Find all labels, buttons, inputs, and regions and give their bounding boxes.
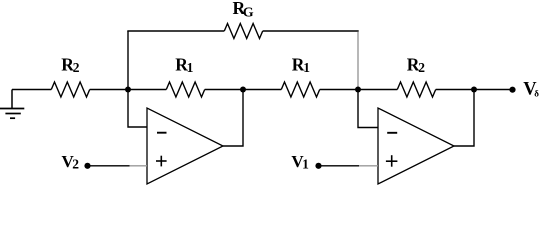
svg-text:2: 2	[72, 157, 79, 172]
svg-text:2: 2	[418, 60, 425, 75]
resistor R2 (right)	[397, 82, 435, 97]
node D	[471, 87, 477, 93]
resistor R2 (left)	[51, 82, 89, 97]
U2 minus symbol	[387, 132, 397, 134]
node B	[355, 87, 361, 93]
resistor R1 (right)	[281, 82, 319, 97]
wire V2 to U1 plus input	[88, 165, 130, 167]
resistor R1 (left)	[166, 82, 204, 97]
wire R2 to output terminal	[436, 89, 513, 91]
U2 plus symbol	[386, 160, 398, 162]
wire V1 to U2 plus input	[319, 165, 360, 167]
node A	[125, 87, 131, 93]
wire R2 to node A	[90, 89, 167, 91]
output terminal Vd	[509, 87, 515, 93]
wire R1 to node C	[205, 89, 282, 91]
U1 plus symbol	[156, 160, 167, 162]
wire node B to op-amp U2 inverting input	[358, 90, 378, 128]
wire R1 to node B	[320, 89, 398, 91]
wire V1 gray segment	[359, 165, 378, 167]
wire feedback loop left vertical	[127, 31, 129, 90]
V2 input terminal	[84, 163, 90, 169]
wire U1 output to node C	[223, 90, 243, 147]
resistor RG	[224, 24, 262, 39]
svg-text:1: 1	[303, 60, 310, 75]
wire node A to op-amp U1 inverting input	[128, 90, 147, 128]
wire feedback top right	[263, 30, 359, 32]
wire ground to R2	[12, 89, 51, 91]
wire V2 gray segment	[130, 165, 148, 167]
U1 minus symbol	[157, 132, 167, 134]
op-amp U2	[378, 108, 454, 184]
op-amp U1	[147, 108, 223, 184]
ground	[0, 90, 24, 119]
svg-text:G: G	[243, 6, 254, 21]
V1 input terminal	[315, 163, 321, 169]
svg-text:1: 1	[302, 157, 309, 172]
wire U2 output to node D	[454, 90, 474, 147]
wire feedback top left	[127, 30, 224, 32]
svg-text:2: 2	[73, 60, 80, 75]
node C	[240, 87, 246, 93]
wire feedback right vertical (gray)	[357, 32, 359, 90]
svg-text:δ: δ	[534, 88, 539, 98]
svg-text:1: 1	[187, 60, 194, 75]
